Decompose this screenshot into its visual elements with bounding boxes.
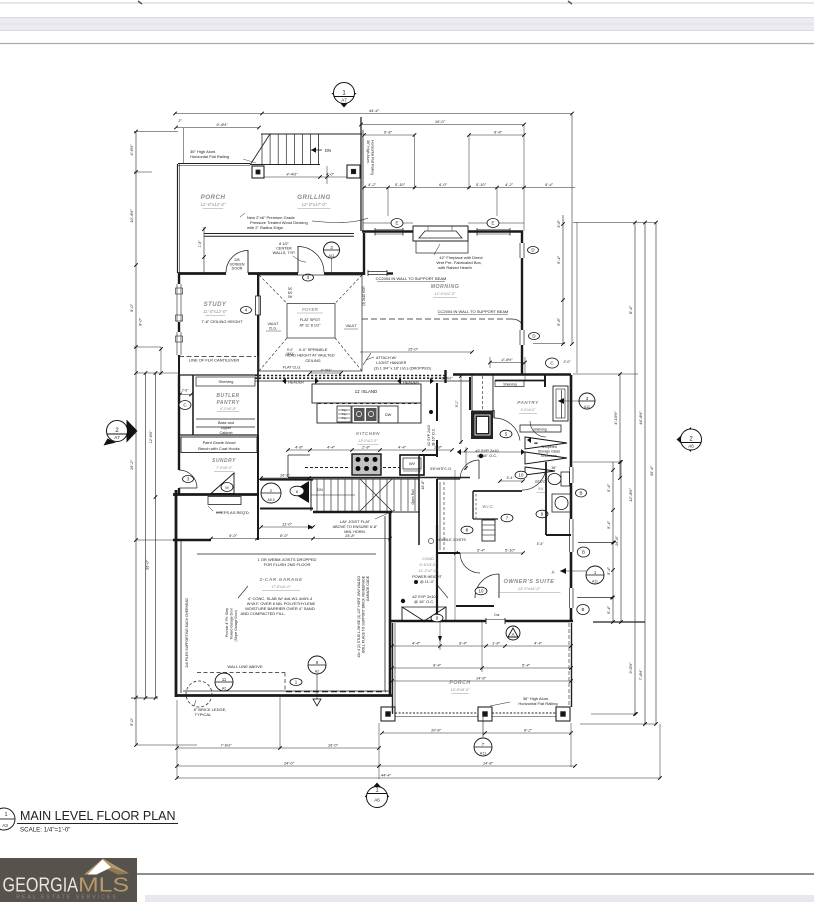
section marker 1/A7 top: [332, 93, 357, 108]
svg-text:VAULT: VAULT: [345, 324, 357, 328]
connector upper: [578, 542, 614, 544]
right dim line 2: [644, 223, 646, 725]
svg-text:3": 3": [178, 119, 182, 123]
porch outline west edge: [392, 623, 394, 714]
right dim line 1: [634, 223, 636, 715]
svg-text:BOLL PLACE TO SUPPORT BRICK VE: BOLL PLACE TO SUPPORT BRICK VENEERAGE: [362, 575, 366, 652]
svg-text:1: 1: [4, 812, 7, 818]
svg-text:RM.: RM.: [538, 487, 544, 491]
kitchen west counter: [287, 455, 289, 477]
svg-text:4'-2": 4'-2": [368, 182, 377, 187]
page top hairline: [0, 2, 814, 4]
right dim line 3: [655, 223, 657, 725]
garage interior joist line: [197, 553, 376, 555]
GeorgiaMLS logo: [0, 858, 137, 902]
svg-text:36'-0": 36'-0": [145, 559, 150, 570]
svg-text:12'-4½": 12'-4½": [628, 488, 633, 502]
svg-text:17'-8"x21'-0": 17'-8"x21'-0": [271, 585, 291, 589]
tempered glass shelves triangles: [525, 437, 567, 449]
svg-text:PANTRY: PANTRY: [216, 400, 239, 406]
svg-text:Paint Grade Wood: Paint Grade Wood: [203, 440, 236, 445]
dim line under top: [364, 187, 575, 189]
screen door swing east: [298, 247, 324, 273]
pantry-powder partition: [544, 374, 546, 387]
svg-text:9'-0": 9'-0": [129, 303, 134, 312]
svg-text:SH: SH: [288, 295, 293, 299]
svg-text:4'-4": 4'-4": [327, 445, 336, 450]
svg-text:8'-2": 8'-2": [524, 728, 533, 733]
callout 7/A11: [474, 738, 492, 756]
svg-text:24'-0": 24'-0": [283, 761, 295, 766]
svg-text:9'-4": 9'-4": [459, 641, 468, 646]
svg-text:4'-4½": 4'-4½": [501, 357, 513, 362]
leader to E right: [496, 188, 498, 216]
DN arrow: [311, 149, 322, 151]
bottom dim garage: [177, 747, 379, 749]
svg-text:FOYER: FOYER: [302, 307, 319, 312]
front wall east segment: [324, 272, 364, 275]
dim 15-0 morning: [360, 351, 472, 353]
svg-text:6'-8": 6'-8": [494, 130, 503, 135]
svg-text:A: A: [552, 570, 555, 575]
svg-text:COND: COND: [422, 556, 434, 561]
top light band: [0, 18, 814, 31]
leader to E left: [387, 188, 389, 216]
dim top 9-4: [176, 127, 259, 129]
top divider line: [0, 43, 814, 45]
wic north wall: [473, 490, 522, 492]
svg-text:15'-8": 15'-8": [345, 533, 356, 538]
dim 4-0 over island: [310, 372, 341, 374]
svg-text:4'-6½": 4'-6½": [129, 144, 134, 156]
study west wall: [178, 273, 180, 284]
window glazing bottom: [523, 330, 525, 345]
svg-text:4'-4": 4'-4": [412, 641, 421, 646]
svg-text:14'-8": 14'-8": [483, 761, 494, 766]
porch bottom dim: [382, 732, 571, 734]
tag B upper: [577, 547, 589, 557]
svg-text:11'-0"x12'-0": 11'-0"x12'-0": [203, 309, 227, 314]
bottom dim 44-4: [177, 777, 660, 779]
wic west wall: [436, 479, 438, 553]
dim 5-4 small: [500, 480, 523, 482]
small dim left deck: [203, 227, 205, 273]
connector D: [533, 343, 565, 345]
svg-text:GRILLING: GRILLING: [297, 194, 331, 201]
svg-text:7'-0"x8'-0": 7'-0"x8'-0": [216, 466, 233, 470]
line of floor cantilever: [179, 356, 256, 358]
svg-text:C: C: [183, 403, 186, 408]
pantry tall cabinet: [553, 386, 568, 421]
dim row garage top: [211, 538, 390, 540]
stair diag 1: [360, 479, 392, 511]
svg-text:9'-1": 9'-1": [455, 400, 459, 408]
ext2: [378, 723, 380, 779]
screen door swing west: [226, 251, 248, 273]
north window glazing 1: [375, 229, 403, 231]
bottom separator line: [137, 873, 814, 875]
svg-text:Base and: Base and: [218, 421, 234, 425]
deck north railing: [178, 163, 250, 165]
svg-text:36": 36": [552, 466, 558, 470]
svg-text:A6: A6: [374, 798, 380, 803]
deck post right: [347, 165, 360, 178]
ext deck left: [183, 128, 185, 163]
svg-text:with Raised Hearth: with Raised Hearth: [438, 265, 472, 270]
svg-text:A11: A11: [328, 254, 334, 258]
svg-text:5'-4": 5'-4": [556, 255, 561, 264]
svg-text:Tempered: Tempered: [541, 445, 557, 449]
wic south wall: [473, 518, 498, 520]
pantry north line: [179, 374, 258, 376]
hall south wall: [456, 605, 494, 607]
svg-text:MLS: MLS: [78, 874, 129, 897]
svg-text:CC2004 IN WALL TO SUPPORT BEAM: CC2004 IN WALL TO SUPPORT BEAM: [438, 309, 509, 314]
svg-text:Shelving: Shelving: [533, 428, 546, 432]
svg-text:6: 6: [296, 489, 298, 494]
dim 16-8: [620, 462, 622, 622]
dining front window: [368, 271, 387, 273]
linen shelves: [482, 520, 495, 541]
stair south wall: [313, 511, 392, 514]
svg-text:ATTACH W/: ATTACH W/: [376, 356, 397, 360]
svg-text:BUTLER: BUTLER: [216, 393, 239, 399]
owner right dims: [612, 462, 614, 622]
west wall below cantilever: [178, 356, 180, 375]
wall kitchen-pantry: [469, 377, 471, 410]
svg-text:11' ISLAND: 11' ISLAND: [355, 389, 377, 394]
landing north wall: [260, 478, 313, 480]
dashed detail circle brick ledge: [186, 681, 212, 707]
svg-text:DW: DW: [385, 413, 392, 417]
morning north wall east of fireplace: [468, 230, 523, 233]
svg-text:36" High Alum.: 36" High Alum.: [366, 140, 370, 164]
powder door arc: [522, 466, 546, 490]
stair arrow: [311, 494, 355, 496]
svg-text:B: B: [582, 550, 585, 555]
svg-text:5'-4": 5'-4": [477, 548, 486, 553]
svg-text:15'-0": 15'-0": [408, 347, 419, 352]
porch post 1: [381, 707, 395, 721]
svg-text:44'-4": 44'-4": [369, 108, 380, 113]
powder west partition: [545, 462, 547, 535]
header symbol left of porch: [402, 607, 424, 621]
svg-text:5'-4": 5'-4": [606, 520, 611, 529]
tag 9: [536, 510, 548, 518]
pocket door triangle M: [211, 473, 234, 494]
svg-text:(3) 2x10 HDR: (3) 2x10 HDR: [362, 286, 366, 306]
svg-text:DOOR: DOOR: [232, 267, 243, 271]
dotted joist band: [255, 375, 446, 377]
svg-text:10'-4½": 10'-4½": [129, 209, 134, 223]
dim 4-4h deck: [264, 176, 327, 178]
study window 2: [180, 332, 182, 355]
svg-text:4'-4": 4'-4": [534, 641, 543, 646]
deck west railing: [177, 164, 179, 273]
A circle triangle marker: [506, 626, 520, 640]
stair east wall: [418, 455, 420, 545]
tag C mid: [546, 358, 559, 368]
garage west wall: [175, 490, 178, 697]
svg-text:CENTER: CENTER: [276, 247, 292, 251]
north window glazing 2: [477, 229, 510, 231]
svg-text:9'-4": 9'-4": [433, 663, 442, 668]
bottom dim 24-0 14-8: [177, 765, 575, 767]
svg-text:6'-8": 6'-8": [384, 130, 393, 135]
porch east edge: [571, 623, 573, 707]
svg-text:1'-4": 1'-4": [198, 240, 202, 248]
powder window glazing: [572, 467, 574, 483]
title circle 1/A3: [0, 808, 15, 830]
window glazing top: [523, 243, 525, 258]
svg-text:4'-4½": 4'-4½": [286, 172, 298, 177]
svg-text:16'-8": 16'-8": [614, 535, 619, 546]
svg-text:3'-8": 3'-8": [557, 220, 561, 228]
hall door arcs: [460, 460, 479, 479]
svg-text:5'-8": 5'-8": [556, 317, 561, 326]
mud south wall: [173, 493, 259, 496]
svg-text:#2x 4 (2) STUD L-WHSE (3)-1/2": #2x 4 (2) STUD L-WHSE (3)-1/2" HGRT. B/W…: [357, 576, 361, 658]
svg-text:FLAT CLG.: FLAT CLG.: [283, 366, 302, 370]
kitchen north header line: [255, 380, 470, 382]
svg-text:Tray: Tray: [341, 416, 347, 420]
top connector right dims: [573, 222, 656, 224]
svg-text:ABOVE TO ENSURE 6'-8": ABOVE TO ENSURE 6'-8": [333, 525, 378, 529]
svg-text:@ 16" O.C.: @ 16" O.C.: [414, 599, 434, 604]
tag 10 owner door: [475, 587, 487, 595]
svg-text:A11: A11: [584, 405, 590, 409]
porch dim 2: [392, 667, 571, 669]
svg-text:(3) 1 3/4" x 18" LVLs (DROPPED: (3) 1 3/4" x 18" LVLs (DROPPED): [374, 367, 432, 371]
front wall west segment: [178, 272, 226, 275]
svg-text:5'-0": 5'-0": [129, 717, 134, 726]
svg-text:B: B: [582, 607, 585, 612]
hearth: [416, 241, 468, 253]
dim top 6-8 left: [364, 134, 415, 136]
wall line above dashed: [197, 672, 285, 674]
connector2: [580, 723, 656, 725]
svg-text:DN: DN: [325, 148, 331, 153]
svg-text:@ 11'-4": @ 11'-4": [420, 580, 435, 584]
svg-text:2'-6": 2'-6": [181, 389, 190, 393]
svg-text:16'-0": 16'-0": [328, 743, 339, 748]
svg-text:16'-8": 16'-8": [421, 480, 425, 490]
deck stairs top: [261, 133, 362, 135]
svg-text:LINE OF FLR CANTILEVER: LINE OF FLR CANTILEVER: [189, 358, 240, 363]
fridge cabinet: [471, 411, 493, 439]
svg-text:KITCHEN: KITCHEN: [356, 431, 380, 436]
svg-text:11'-0": 11'-0": [282, 522, 292, 527]
garage east wall: [389, 511, 392, 695]
mini markers: [527, 437, 531, 443]
dim top overall 44-4: [175, 113, 572, 115]
tag B powder window: [576, 489, 587, 497]
svg-text:Horizontal Flat Railing: Horizontal Flat Railing: [371, 140, 375, 175]
svg-text:A11: A11: [592, 579, 598, 583]
callout 1/A11: [586, 566, 604, 584]
small dim hall: [465, 447, 467, 470]
front wall stub east of window: [387, 272, 393, 274]
svg-text:12'-0"x12'-0": 12'-0"x12'-0": [201, 202, 226, 207]
svg-text:3'6"x9'5"C.O.: 3'6"x9'5"C.O.: [430, 467, 452, 471]
svg-text:44'-4": 44'-4": [381, 773, 392, 778]
tag 10: [515, 471, 527, 479]
mud west wall upper: [178, 440, 180, 470]
circles E on wall line: [363, 222, 413, 224]
svg-text:8'-4": 8'-4": [628, 305, 633, 314]
svg-text:POWER HEIGHT: POWER HEIGHT: [412, 575, 442, 579]
foyer vault outline: [259, 275, 362, 371]
east wall mid: [570, 552, 573, 588]
kitchen interior dim: [460, 374, 462, 444]
wic west closet: [472, 491, 474, 519]
svg-text:Dor: Dor: [494, 613, 500, 617]
svg-text:A: A: [512, 632, 515, 637]
svg-text:5'-10": 5'-10": [395, 182, 406, 187]
svg-text:12'-6½": 12'-6½": [149, 430, 153, 443]
leader curve decking: [312, 218, 368, 222]
svg-text:AT 11' 8 1/2": AT 11' 8 1/2": [299, 324, 321, 328]
svg-text:Open Rail: Open Rail: [411, 489, 415, 504]
black door wedge + 6: [291, 481, 309, 503]
svg-text:11: 11: [222, 677, 227, 682]
svg-text:5'-4": 5'-4": [507, 476, 515, 480]
front wall mid segment: [248, 272, 298, 275]
svg-text:2'-8": 2'-8": [361, 445, 371, 450]
svg-text:with 2" Radius Edge.: with 2" Radius Edge.: [247, 225, 284, 230]
long extension line hall: [454, 470, 456, 620]
window mullion: [176, 288, 183, 294]
svg-text:SCALE: 1/4"=1'-0": SCALE: 1/4"=1'-0": [20, 827, 70, 834]
owner window glazing 1: [572, 519, 574, 552]
svg-text:A7: A7: [341, 98, 347, 103]
svg-text:Tray: Tray: [341, 408, 347, 412]
svg-text:A5.3: A5.3: [268, 498, 275, 502]
svg-text:1'-8": 1'-8": [492, 641, 501, 646]
deck east railing/wall: [360, 117, 362, 231]
dim top 6-8 right: [469, 134, 524, 136]
svg-text:2/8: 2/8: [235, 258, 240, 262]
svg-text:7'-4½": 7'-4½": [638, 669, 643, 681]
svg-text:Upper: Upper: [221, 426, 232, 430]
svg-text:15'-0"x12'-0": 15'-0"x12'-0": [359, 439, 378, 443]
svg-text:A2: A2: [222, 686, 226, 690]
svg-text:6'-2"x5'-8": 6'-2"x5'-8": [220, 407, 237, 411]
svg-text:I-JOIST HANGER: I-JOIST HANGER: [376, 361, 407, 365]
callout 11/A2: [215, 673, 233, 691]
svg-text:5'-10": 5'-10": [476, 182, 487, 187]
east wall upper2: [570, 483, 573, 519]
svg-text:A3: A3: [2, 823, 8, 828]
svg-text:4'-0" SPRINKLE: 4'-0" SPRINKLE: [299, 347, 328, 352]
svg-text:#2 SYP 2x10: #2 SYP 2x10: [427, 425, 431, 446]
porch dim 3: [392, 680, 571, 682]
svg-text:PORCH: PORCH: [201, 194, 226, 201]
svg-text:5'-4": 5'-4": [537, 542, 545, 546]
wall left of owner suite: [436, 525, 438, 621]
svg-text:9'-0½": 9'-0½": [628, 662, 633, 674]
svg-text:Toward Garage Door: Toward Garage Door: [230, 607, 234, 639]
dim 16-8 landing: [261, 477, 309, 479]
WV microwave box: [400, 455, 424, 475]
window tag D2: [529, 333, 540, 340]
hall wall: [419, 454, 437, 456]
left dim mid: [145, 373, 147, 698]
svg-text:4'-2": 4'-2": [505, 182, 514, 187]
patio door jamb: [504, 618, 506, 624]
pantry cabinet inner line: [561, 390, 563, 418]
island appliance row: [317, 403, 421, 423]
svg-text:5'-0"x6'-6": 5'-0"x6'-6": [521, 408, 537, 412]
owner window glazing 2: [572, 588, 574, 608]
window tag D: [528, 247, 539, 254]
svg-text:PANTRY: PANTRY: [517, 400, 539, 405]
svg-text:FOR FLUSH 2ND FLOOR: FOR FLUSH 2ND FLOOR: [264, 562, 311, 567]
kitchen island: [312, 384, 421, 403]
svg-text:7'-6½": 7'-6½": [220, 743, 232, 748]
svg-text:TYPICAL: TYPICAL: [195, 712, 212, 717]
stair diag 2: [360, 479, 392, 511]
bottom lavender band: [145, 895, 814, 902]
svg-text:13'-0"x16'-0": 13'-0"x16'-0": [518, 586, 541, 591]
8/A2 leader arrow: [316, 674, 318, 699]
porch post 2: [478, 707, 492, 721]
door tag 4: [303, 274, 314, 281]
stair diagonal: [250, 134, 270, 165]
ext5: [659, 724, 661, 779]
stair tread: [316, 479, 318, 511]
owner suite door: [475, 574, 499, 598]
ext4: [279, 697, 281, 749]
wall pantry-mud east: [257, 435, 259, 540]
door tag 3: [183, 476, 194, 483]
svg-text:Horizontal Flat Railing: Horizontal Flat Railing: [518, 701, 557, 706]
svg-text:A11: A11: [480, 751, 486, 755]
callout 2/A5.3: [261, 483, 281, 503]
svg-text:M: M: [225, 486, 228, 490]
svg-text:9'-4": 9'-4": [545, 182, 554, 187]
svg-text:(Slope Garage Door): (Slope Garage Door): [234, 610, 238, 641]
powder south wall: [546, 534, 571, 536]
landing south wall: [260, 508, 313, 510]
svg-text:5'-6"x3'-0": 5'-6"x3'-0": [419, 563, 437, 567]
dim 11-0: [261, 526, 313, 528]
toilet powder: [561, 472, 570, 486]
svg-text:STUDY: STUDY: [204, 302, 227, 308]
pocket door study: [256, 296, 261, 315]
svg-text:4'-4": 4'-4": [398, 445, 407, 450]
kitchen tall cabinet upper: [472, 374, 493, 411]
svg-text:5'-10": 5'-10": [505, 548, 516, 553]
svg-text:11'-2"x7'-0": 11'-2"x7'-0": [419, 569, 439, 573]
left extension lines: [134, 131, 178, 133]
tag 7: [501, 514, 513, 522]
garage north wall west part: [173, 539, 211, 542]
closet rods: [439, 482, 441, 550]
svg-text:16'-8": 16'-8": [280, 473, 291, 478]
ext3: [570, 723, 572, 767]
tag 1: [290, 679, 302, 686]
svg-text:9'-0": 9'-0": [138, 317, 143, 326]
east wall lower: [570, 608, 573, 621]
callout 3/A11: [324, 242, 340, 258]
pantry south line: [179, 434, 258, 436]
pantry east wall: [257, 356, 259, 435]
svg-text:Horizontal Flat Railing: Horizontal Flat Railing: [190, 154, 229, 159]
svg-text:9'-0": 9'-0": [229, 533, 238, 538]
svg-text:9'-4½": 9'-4½": [216, 122, 228, 127]
main stair outline: [311, 478, 419, 480]
